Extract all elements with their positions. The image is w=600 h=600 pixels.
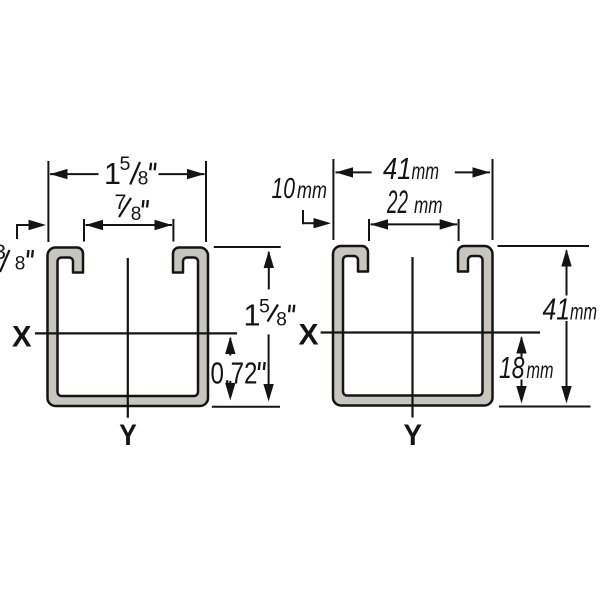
dim 3/8in lip: label [0,240,33,275]
svg-text:mm: mm [570,299,597,325]
svg-text:8: 8 [15,254,26,275]
left X axis line [35,332,237,334]
right X axis line [321,331,540,333]
dim 1-5/8in width: right arrow [187,169,205,179]
dim 7/8in opening: right extension line [172,219,174,242]
svg-text:10: 10 [272,173,296,205]
dim 10mm lip: leader arrow [314,218,332,228]
dim 41mm height: up arrow [561,249,571,267]
svg-text:22: 22 [386,184,408,220]
dim 18mm: up arrow [516,336,526,354]
svg-text:1: 1 [104,157,121,191]
dim 1-5/8in height: top reference line [214,246,281,248]
dim 41mm width: right arrow [473,167,491,177]
dim 41mm height: down arrow [561,386,571,404]
svg-text:mm: mm [414,192,443,218]
svg-text:5: 5 [259,295,270,317]
dim 22mm opening: left extension line [368,219,370,241]
right Y axis line [411,257,413,418]
dim 7/8in opening: label [115,190,148,225]
svg-text:Y: Y [404,419,423,452]
svg-text:X: X [299,319,319,352]
dim 41mm height: label [543,293,598,327]
dim 1-5/8in height: bottom reference line [212,406,280,408]
dim 0.72in: down arrow [225,383,235,401]
svg-text:Y: Y [119,419,137,452]
dim 22mm opening: line with arrows [371,219,389,229]
dim 41mm height: bottom reference line [499,406,591,408]
svg-text:8: 8 [138,169,149,190]
dim 1-5/8in width: left arrow [50,169,68,179]
dim 3/8in lip: leader arrow [29,220,47,230]
dim 10mm lip: label [272,173,328,205]
svg-text:mm: mm [412,158,440,184]
svg-text:41: 41 [543,293,571,327]
dim 41mm width: left arrow [336,167,354,177]
dim 1-5/8in width: left extension line [47,161,49,242]
dim 0.72in: up arrow [225,337,235,355]
right channel C2 cross-section [333,246,493,406]
dim 18mm: label [499,351,554,385]
svg-text:18: 18 [499,351,525,385]
dim 1-5/8in height: up arrow [264,251,274,269]
svg-text:mm: mm [527,357,554,383]
dim 41mm height: top reference line [498,245,590,247]
dim 22mm opening: label [386,184,442,220]
dim 41mm width: right extension line [492,159,494,240]
svg-text:0.72: 0.72 [211,357,258,391]
svg-text:7: 7 [115,190,127,214]
dim 18mm: down arrow [516,386,526,404]
svg-text:8: 8 [131,204,142,225]
dim 22mm opening: right extension line [458,219,460,241]
svg-text:5: 5 [120,153,131,175]
dim 1-5/8in height: down arrow [263,384,273,402]
svg-text:8: 8 [276,309,287,330]
svg-text:41: 41 [383,152,412,186]
svg-text:1: 1 [244,298,261,332]
dim 41mm width: label [383,152,439,186]
left Y axis line [127,258,129,418]
dim 41mm width: left extension line [332,159,334,240]
dim 7/8in opening: line with arrows [86,220,104,230]
dim 1-5/8in width: right extension line [205,161,207,242]
dim 7/8in opening: left extension line [83,219,85,242]
svg-text:mm: mm [297,177,327,203]
dim 1-5/8in width: label [104,153,155,191]
svg-text:X: X [12,320,32,353]
dim 1-5/8in height: label [244,295,295,332]
left channel C1 cross-section [48,248,209,407]
